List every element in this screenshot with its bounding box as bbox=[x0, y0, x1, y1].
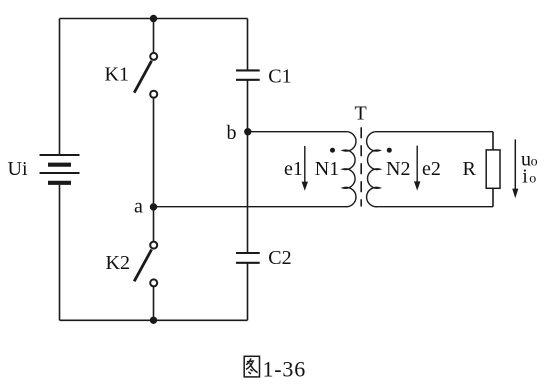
label N1 bbox=[315, 158, 339, 180]
arrow e2 bbox=[414, 146, 420, 191]
capacitor C2 bbox=[236, 253, 260, 263]
svg-text:o: o bbox=[531, 155, 538, 170]
wire right branch C1 to C2 (through node b and crossing) bbox=[247, 80, 249, 253]
label e2 bbox=[422, 158, 441, 180]
transformer secondary winding N2 (coil, wires to load) bbox=[367, 132, 493, 207]
arrow e1 bbox=[302, 146, 308, 191]
wire load right vertical bottom bbox=[492, 188, 494, 206]
label N2 bbox=[386, 158, 410, 180]
transformer core (dashed) bbox=[360, 127, 362, 206]
arrow uo io bbox=[512, 139, 518, 198]
svg-text:N2: N2 bbox=[386, 158, 410, 180]
svg-text:e1: e1 bbox=[284, 158, 303, 180]
svg-text:C1: C1 bbox=[268, 66, 291, 88]
wire left rail upper (top rail to battery) bbox=[59, 19, 61, 156]
label R bbox=[463, 158, 477, 180]
transformer primary winding N1 (wire from b, coil) bbox=[154, 132, 356, 207]
resistor R bbox=[486, 150, 500, 188]
svg-text:e2: e2 bbox=[422, 158, 441, 180]
label Ui bbox=[8, 158, 28, 180]
node bottom junction bbox=[150, 317, 157, 324]
label C2 bbox=[268, 247, 291, 269]
label T bbox=[355, 102, 367, 124]
wire right branch C2 to bottom rail bbox=[247, 263, 249, 321]
caption 1-36 bbox=[263, 356, 307, 381]
label io bbox=[522, 165, 536, 187]
svg-text:a: a bbox=[134, 195, 143, 217]
wire middle branch node a to K2 bbox=[153, 207, 155, 242]
wire middle branch K2 to bottom rail bbox=[153, 286, 155, 320]
battery Ui bbox=[40, 155, 80, 183]
svg-text:T: T bbox=[355, 102, 367, 124]
switch K1 bbox=[134, 53, 157, 98]
wire middle branch K1 to node a bbox=[153, 98, 155, 207]
label uo bbox=[521, 149, 538, 171]
node top junction bbox=[150, 15, 157, 22]
wire bottom rail bbox=[60, 319, 248, 321]
svg-text:R: R bbox=[463, 158, 477, 180]
svg-text:N1: N1 bbox=[315, 158, 339, 180]
capacitor C1 bbox=[236, 70, 260, 79]
switch K2 bbox=[134, 242, 157, 287]
node b bbox=[244, 128, 251, 135]
wire middle branch top (top rail to K1) bbox=[153, 19, 155, 54]
label C1 bbox=[268, 66, 291, 88]
svg-text:o: o bbox=[529, 171, 536, 186]
caption 图 (drawn glyph) bbox=[244, 356, 259, 377]
wire left rail lower (battery to bottom rail) bbox=[59, 185, 61, 320]
svg-text:i: i bbox=[522, 165, 528, 187]
wire right branch top (top rail to C1) bbox=[247, 19, 249, 71]
svg-text:K1: K1 bbox=[105, 64, 129, 86]
wire load right vertical top bbox=[492, 132, 494, 150]
label b bbox=[227, 122, 237, 144]
svg-text:b: b bbox=[227, 122, 237, 144]
svg-text:Ui: Ui bbox=[8, 158, 28, 180]
svg-text:K2: K2 bbox=[106, 252, 130, 274]
wire top rail bbox=[60, 18, 248, 20]
label K2 bbox=[106, 252, 130, 274]
label K1 bbox=[105, 64, 129, 86]
node a bbox=[150, 203, 157, 210]
polarity dot N2 bbox=[387, 148, 392, 153]
label e1 bbox=[284, 158, 303, 180]
svg-text:1-36: 1-36 bbox=[263, 356, 307, 381]
polarity dot N1 bbox=[330, 148, 335, 153]
svg-text:C2: C2 bbox=[268, 247, 291, 269]
label a bbox=[134, 195, 143, 217]
